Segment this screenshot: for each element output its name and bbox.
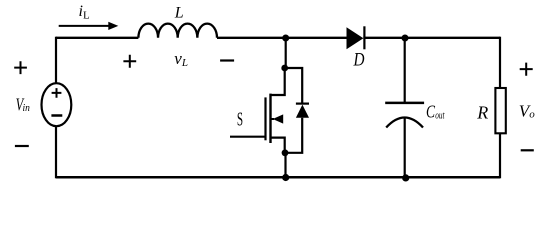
label minus of vL [220, 59, 234, 61]
node junction bottom of capacitor branch [402, 174, 409, 181]
svg-text:D: D [353, 49, 365, 70]
node junction top of switch branch [282, 35, 289, 42]
node junction bottom of switch branch [282, 174, 289, 181]
inductor L [138, 24, 217, 38]
diode D [347, 27, 364, 49]
node junction drain split [281, 65, 288, 72]
minus sign inside source [51, 114, 62, 117]
capacitor Cout curved plate [386, 118, 423, 128]
svg-text:S: S [237, 109, 243, 131]
label minus output [521, 149, 534, 151]
label + output [520, 63, 533, 76]
svg-text:L: L [174, 5, 184, 22]
voltage source Vin [42, 83, 72, 126]
transistor S body arrow [271, 118, 275, 120]
wire top rail right segment [363, 37, 500, 39]
svg-text:R: R [476, 102, 488, 122]
wire capacitor branch top vertical [404, 38, 406, 103]
label + outer left [14, 61, 27, 74]
transistor S channel bar [269, 94, 271, 143]
wire left vertical above source [55, 37, 57, 84]
wire top rail left segment [56, 37, 138, 39]
wire capacitor branch bottom vertical [404, 118, 406, 178]
wire gate lead [230, 136, 266, 138]
wire switch branch top vertical [285, 38, 287, 68]
capacitor Cout top plate [385, 102, 424, 105]
body diode of S [296, 102, 309, 104]
label + of vL [123, 55, 136, 68]
wire top rail middle segment [217, 37, 348, 39]
wire bottom rail [56, 176, 500, 179]
plus sign inside source [52, 88, 62, 98]
current arrow iL [59, 25, 110, 27]
wire right vertical above resistor [499, 37, 501, 88]
resistor R [495, 88, 505, 133]
wire drain lead [271, 68, 285, 95]
wire left vertical below source [55, 126, 57, 178]
wire right vertical below resistor [499, 133, 501, 178]
transistor S gate bar [264, 97, 266, 140]
wire body diode bottom [285, 118, 302, 153]
node junction top of capacitor branch [402, 35, 409, 42]
wire switch branch bottom vertical [284, 153, 286, 177]
label minus outer left [15, 145, 29, 147]
svg-text:out: out [435, 110, 445, 121]
wire source lead [271, 138, 285, 153]
wire body diode top [285, 68, 303, 104]
node junction source join [282, 149, 289, 156]
svg-text:in: in [23, 102, 31, 114]
